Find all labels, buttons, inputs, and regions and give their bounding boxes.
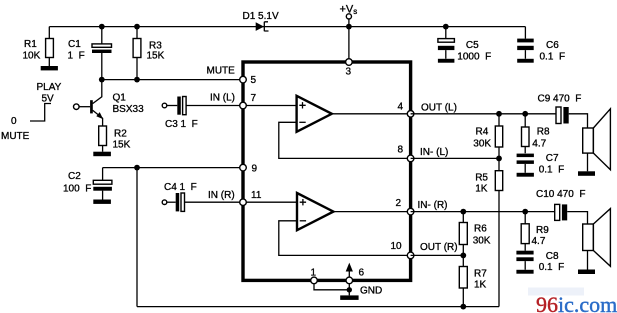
wire: C2 to pin 9 — [103, 167, 240, 169]
op-amp U1a — [297, 96, 332, 132]
capacitor C10 — [536, 189, 585, 220]
node: C1/Q1 collector junction — [99, 77, 105, 83]
ground (C8) — [516, 270, 533, 274]
svg-text:MUTE: MUTE — [207, 66, 236, 77]
svg-text:MUTE: MUTE — [1, 131, 30, 142]
node: pin9 wire / bottom-rail branch — [134, 165, 140, 171]
svg-text:IN (L): IN (L) — [210, 93, 235, 104]
resistor R6 — [459, 212, 491, 256]
svg-text:C3 1 F: C3 1 F — [165, 119, 198, 130]
collector lead — [93, 80, 102, 104]
svg-text:C2: C2 — [68, 171, 81, 182]
svg-text:C1: C1 — [68, 39, 81, 50]
wire: U1b output to pin 2 — [333, 211, 410, 213]
svg-text:C6: C6 — [546, 40, 559, 51]
watermark 96ic.com — [528, 288, 617, 313]
svg-text:R5: R5 — [475, 173, 488, 184]
svg-text:4: 4 — [398, 102, 404, 113]
svg-text:R9: R9 — [536, 225, 549, 236]
pin 3 — [346, 59, 353, 66]
ground (speaker L) — [578, 171, 595, 176]
resistor R1 — [23, 27, 54, 66]
capacitor C9 — [538, 94, 582, 124]
node: rail / C5 junction — [443, 24, 449, 30]
svg-text:2: 2 — [396, 198, 402, 209]
IC box U1 — [243, 62, 411, 280]
wire: C10 to speaker R — [567, 212, 587, 224]
speaker LS1 (left) — [583, 109, 611, 172]
svg-text:11: 11 — [251, 190, 262, 201]
svg-text:R6: R6 — [474, 224, 487, 235]
wire: U1a output to pin 4 — [332, 113, 411, 115]
node: R3/MUTE rail junction — [134, 77, 140, 83]
op-amp U1b — [297, 193, 333, 230]
pin 9 — [240, 164, 247, 171]
ground (C5) — [438, 59, 455, 63]
wire: bottom rail — [137, 306, 499, 308]
svg-text:Q1: Q1 — [113, 93, 127, 104]
svg-text:C8: C8 — [546, 251, 559, 262]
svg-text:7: 7 — [251, 93, 257, 104]
svg-text:0.1 F: 0.1 F — [539, 165, 565, 176]
ground (C7) — [517, 173, 534, 177]
svg-text:30K: 30K — [473, 235, 491, 246]
node: IN-(R)/R9 junction — [522, 209, 528, 215]
ground (speaker R) — [578, 270, 595, 275]
svg-text:10: 10 — [391, 241, 403, 252]
capacitor C7 — [517, 153, 565, 176]
resistor R4 — [473, 114, 502, 159]
wire: OUT(R) pin10 to R6/R7 — [411, 254, 464, 256]
pin 1 — [311, 277, 318, 284]
svg-text:1000 F: 1000 F — [457, 52, 491, 63]
svg-text:15K: 15K — [113, 140, 131, 151]
ground (R2) — [93, 152, 111, 157]
svg-text:R4: R4 — [476, 126, 489, 137]
base bar — [90, 100, 93, 113]
svg-text:10K: 10K — [23, 51, 41, 62]
svg-text:1K: 1K — [475, 183, 488, 194]
wire: IN-(L) pin8 to R4/R5 — [411, 157, 499, 159]
svg-text:R8: R8 — [537, 127, 550, 138]
resistor R2 — [99, 126, 131, 152]
node: top rail / C1 junction — [99, 24, 105, 30]
resistor R3 — [133, 27, 165, 80]
svg-text:IN (R): IN (R) — [208, 190, 235, 201]
svg-text:96ic.com: 96ic.com — [536, 292, 617, 313]
node: OUT(L)/R8 junction — [522, 111, 528, 117]
resistor R8 — [522, 114, 551, 153]
node: PLAY level annotation — [1, 82, 62, 142]
transistor Q1 — [74, 80, 145, 126]
wire: top supply rail — [49, 26, 525, 28]
svg-text:IN- (L): IN- (L) — [420, 147, 448, 158]
wire: left vertical down to bottom rail — [136, 168, 138, 307]
pin 5 — [240, 76, 247, 83]
svg-text:1K: 1K — [474, 280, 487, 291]
svg-text:D1 5.1V: D1 5.1V — [243, 11, 279, 22]
pin 10 — [407, 252, 414, 259]
node: IN-(L)/R4/R5 junction — [496, 156, 502, 162]
svg-text:R7: R7 — [474, 268, 487, 279]
svg-text:6: 6 — [359, 268, 365, 279]
resistor R7 — [459, 255, 487, 306]
svg-text:C5: C5 — [466, 40, 479, 51]
pin 4 — [407, 111, 414, 118]
svg-text:15K: 15K — [147, 51, 165, 62]
svg-text:OUT (L): OUT (L) — [421, 103, 457, 114]
svg-text:BSX33: BSX33 — [113, 104, 145, 115]
svg-text:4.7: 4.7 — [532, 138, 546, 149]
resistor R5 — [475, 158, 502, 306]
ground (C6) — [517, 59, 534, 63]
svg-text:C7: C7 — [546, 153, 559, 164]
pin 6 — [346, 277, 353, 284]
node: +Vs terminal — [340, 4, 358, 59]
wire: step waveform symbol — [30, 104, 51, 122]
svg-text:C9 470 F: C9 470 F — [538, 94, 582, 105]
resistor R9 — [521, 212, 549, 251]
capacitor C6 — [517, 27, 565, 63]
node: +Vs / rail junction — [346, 24, 352, 30]
svg-text:1 F: 1 F — [68, 51, 85, 62]
capacitor C3 — [162, 97, 240, 131]
pin 2 — [407, 208, 414, 215]
ground (IC pins 1,6) with arrow — [314, 263, 382, 300]
wire: U1a feedback (pin 8 to - input) — [279, 122, 411, 158]
node: OUT(L)/R4 junction — [496, 111, 502, 117]
svg-text:1: 1 — [311, 268, 317, 279]
svg-text:R2: R2 — [114, 129, 127, 140]
svg-text:PLAY: PLAY — [37, 82, 62, 93]
svg-text:5: 5 — [251, 75, 257, 86]
capacitor C2 — [63, 168, 112, 200]
node: top rail / R3 junction — [134, 24, 140, 30]
wire: OUT(L) pin4 to C9 — [411, 113, 556, 115]
capacitor C4 — [162, 182, 240, 211]
svg-text:8: 8 — [398, 145, 404, 156]
capacitor C5 — [438, 27, 491, 63]
wire: MUTE rail to pin 5 — [102, 79, 240, 81]
diode D1 (5.1V zener) — [243, 11, 279, 31]
ground (R1) — [41, 66, 58, 70]
node: OUT(R)/R6/R7 junction — [460, 253, 466, 259]
svg-text:100 F: 100 F — [63, 184, 91, 195]
wire: C9 to speaker L — [569, 114, 588, 128]
svg-text:30K: 30K — [473, 138, 491, 149]
svg-text:R1: R1 — [24, 39, 37, 50]
base lead — [74, 104, 80, 110]
svg-text:0.1 F: 0.1 F — [540, 52, 566, 63]
pin 7 — [240, 102, 247, 109]
capacitor C8 — [516, 251, 564, 273]
ground (C2) — [93, 200, 111, 204]
svg-text:C10 470 F: C10 470 F — [536, 189, 585, 200]
svg-text:0: 0 — [11, 116, 17, 127]
pin 11 — [240, 199, 247, 206]
svg-text:C4 1 F: C4 1 F — [164, 182, 197, 193]
svg-text:9: 9 — [252, 164, 258, 175]
capacitor C1 — [68, 27, 112, 80]
svg-text:IN- (R): IN- (R) — [418, 200, 448, 211]
node: IN-(R)/R6 junction — [460, 209, 466, 215]
pin 8 — [407, 155, 414, 162]
node: R7/bottom rail junction — [460, 304, 466, 310]
wire: IN-(R) pin2 to C10 — [411, 211, 555, 213]
emitter lead with arrow — [93, 110, 103, 126]
svg-text:4.7: 4.7 — [532, 236, 546, 247]
svg-text:OUT (R): OUT (R) — [420, 242, 458, 253]
wire: pin7 to U1a + input — [243, 105, 297, 107]
svg-text:0.1 F: 0.1 F — [539, 262, 565, 273]
speaker LS2 (right) — [583, 209, 611, 270]
svg-text:GND: GND — [360, 286, 382, 297]
svg-text:3: 3 — [346, 67, 352, 78]
wire: pin11 to U1b + input — [243, 201, 297, 203]
wire: U1b feedback (pin 10 to - input) — [279, 221, 411, 256]
